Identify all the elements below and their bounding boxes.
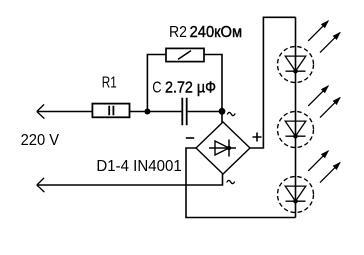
svg-text:R2: R2 bbox=[169, 24, 187, 41]
svg-text:2.72 µФ: 2.72 µФ bbox=[165, 79, 216, 96]
svg-text:240кОм: 240кОм bbox=[190, 24, 243, 41]
svg-text:R1: R1 bbox=[102, 74, 117, 91]
svg-text:C: C bbox=[152, 79, 161, 96]
svg-text:220 V: 220 V bbox=[21, 132, 60, 149]
svg-text:D1-4 IN4001: D1-4 IN4001 bbox=[96, 158, 181, 175]
